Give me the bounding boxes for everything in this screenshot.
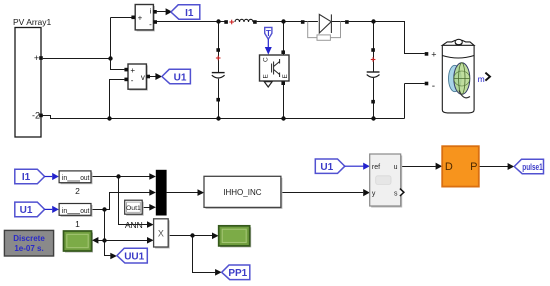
svg-text:ref: ref — [372, 164, 380, 171]
svg-text:ANN: ANN — [125, 220, 143, 230]
svg-text:PV Array1: PV Array1 — [13, 17, 52, 27]
svg-text:C: C — [263, 57, 270, 62]
svg-text:1: 1 — [75, 219, 80, 229]
svg-text:-2: -2 — [32, 111, 40, 121]
svg-text:m: m — [478, 74, 485, 84]
svg-text:I1: I1 — [185, 8, 194, 19]
svg-text:out: out — [80, 208, 89, 215]
svg-text:in: in — [62, 208, 68, 215]
svg-text:u: u — [394, 164, 398, 171]
svg-text:1e-07 s.: 1e-07 s. — [14, 244, 43, 253]
svg-text:U1: U1 — [20, 205, 33, 216]
svg-text:D: D — [445, 161, 453, 173]
svg-text:-: - — [149, 20, 152, 29]
svg-text:in: in — [62, 175, 68, 182]
svg-text:+: + — [130, 66, 135, 75]
svg-text:s: s — [394, 191, 398, 198]
svg-text:U1: U1 — [174, 72, 187, 83]
svg-text:IHHO_INC: IHHO_INC — [223, 188, 261, 197]
svg-text:pulse1: pulse1 — [522, 162, 543, 173]
svg-text:E: E — [263, 74, 270, 79]
svg-text:U1: U1 — [320, 162, 333, 173]
svg-text:2: 2 — [75, 186, 80, 196]
svg-text:v: v — [141, 73, 145, 82]
svg-text:P: P — [470, 161, 477, 173]
svg-text:-: - — [432, 81, 435, 92]
svg-text:E: E — [282, 74, 289, 79]
svg-text:+: + — [431, 49, 436, 59]
svg-text:X: X — [158, 229, 164, 239]
svg-text:out: out — [80, 175, 89, 182]
svg-text:UU1: UU1 — [124, 251, 144, 262]
svg-text:-: - — [131, 76, 134, 85]
svg-text:PP1: PP1 — [228, 268, 247, 279]
svg-text:T: T — [266, 29, 271, 38]
svg-text:y: y — [372, 191, 376, 198]
svg-text:+: + — [138, 14, 143, 23]
svg-text:+: + — [34, 53, 39, 63]
svg-text:Out1: Out1 — [126, 205, 141, 212]
svg-text:I1: I1 — [22, 172, 31, 183]
svg-text:Discrete: Discrete — [13, 234, 45, 243]
